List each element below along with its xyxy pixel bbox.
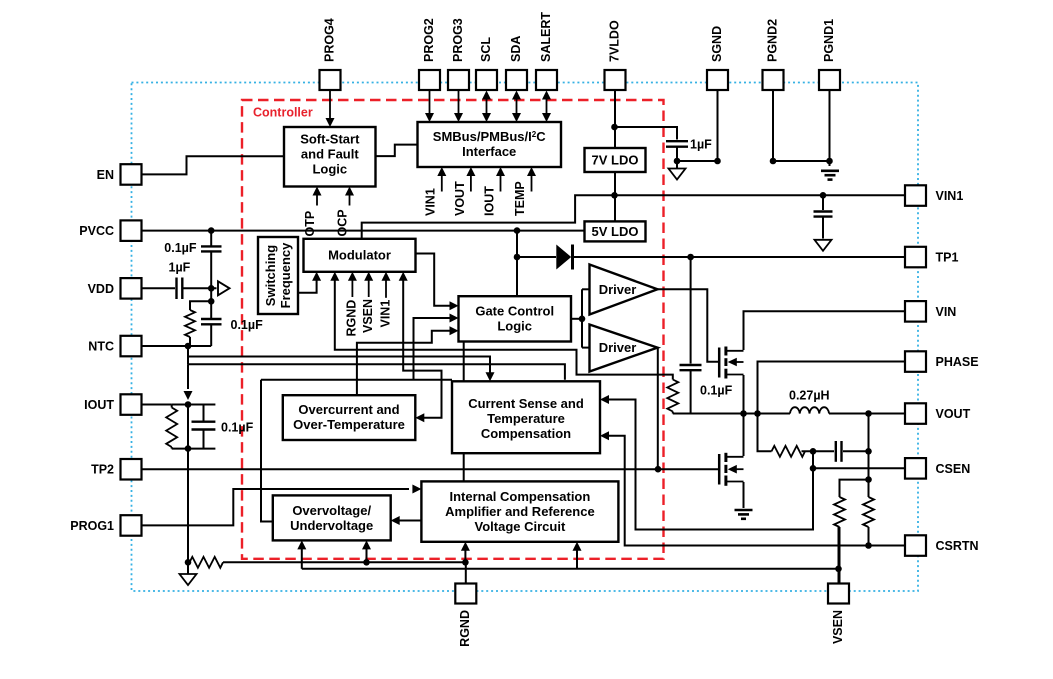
- svg-text:PROG3: PROG3: [451, 18, 465, 62]
- svg-text:Controller: Controller: [253, 106, 313, 120]
- svg-text:Temperature: Temperature: [487, 411, 565, 426]
- wire PGND1 pin drop: [829, 91, 831, 167]
- ground (SGND, open triangle): [669, 169, 686, 180]
- wire VSEN pin riser: [838, 569, 840, 584]
- wire ground stem: [187, 562, 189, 573]
- svg-text:0.1µF: 0.1µF: [231, 318, 264, 332]
- block SMBus/PMBus/I2C Interface: [418, 122, 562, 167]
- pin SCL: [476, 37, 497, 90]
- capacitor C4 1uF (7VLDO): [666, 141, 688, 147]
- block Current Sense and Temperature Compensation: [452, 381, 600, 453]
- svg-text:Interface: Interface: [462, 144, 516, 159]
- pin SDA: [506, 36, 527, 90]
- svg-text:VSEN: VSEN: [361, 299, 375, 333]
- node cap/divider column: [865, 448, 872, 455]
- pin SALERT: [536, 12, 557, 90]
- arrow SDA bidirectional: [516, 97, 518, 115]
- svg-text:IOUT: IOUT: [84, 398, 114, 412]
- svg-text:SALERT: SALERT: [539, 12, 553, 62]
- svg-text:Undervoltage: Undervoltage: [290, 518, 373, 533]
- svg-text:NTC: NTC: [88, 340, 114, 354]
- block 5V LDO: [585, 221, 646, 241]
- pin SGND: [707, 26, 728, 90]
- wire bottom analog rail1: [188, 561, 190, 563]
- svg-text:SDA: SDA: [509, 36, 523, 62]
- node divider top: [865, 476, 872, 483]
- svg-text:VIN1: VIN1: [379, 300, 393, 328]
- block Overcurrent and Over-Temperature: [283, 395, 416, 440]
- wire VIN1 rail into Modulator top: [362, 195, 615, 239]
- node rail1/OV arrow: [363, 559, 370, 566]
- wire VIN line to Q1 drain: [744, 311, 906, 350]
- svg-text:VOUT: VOUT: [453, 181, 467, 216]
- svg-text:IOUT: IOUT: [483, 186, 497, 216]
- arrow+label OTP into Soft-Start: [316, 194, 318, 206]
- pin EN: [97, 164, 142, 185]
- wire NTC: [141, 345, 211, 347]
- transistor Q1 (high-side MOSFET): [719, 347, 743, 379]
- wire Switching Frequency to Modulator: [298, 278, 317, 293]
- wire CSRTN line: [607, 436, 906, 546]
- wire SGND ground stem: [676, 161, 678, 168]
- node TP1/bootstrap: [687, 254, 694, 261]
- svg-text:7V LDO: 7V LDO: [592, 153, 639, 168]
- node IOUT network bottom: [185, 445, 192, 452]
- node RC mid: [810, 448, 817, 455]
- resistor R4 (divider left): [834, 497, 845, 527]
- arrow+label VOUT into SMBus: [470, 174, 472, 192]
- chip boundary (blue dotted): [132, 83, 919, 592]
- wire phase rail: [673, 413, 790, 415]
- svg-text:EN: EN: [97, 168, 114, 182]
- wire PHASE line: [758, 362, 906, 414]
- svg-text:CSRTN: CSRTN: [936, 539, 979, 553]
- node GCL output: [579, 316, 586, 323]
- wire Modulator line to Overcurrent right arrow: [403, 278, 441, 418]
- svg-text:VSEN: VSEN: [831, 610, 845, 644]
- pin VIN: [905, 301, 956, 322]
- wire VDD branch to NTC resistor: [190, 301, 211, 310]
- svg-text:1µF: 1µF: [690, 138, 712, 152]
- arrow GCL input 1: [450, 301, 459, 310]
- pin PROG3: [448, 18, 469, 90]
- resistor R7 (current sense): [772, 446, 806, 457]
- wire EN to Soft-Start: [141, 156, 284, 174]
- svg-text:TP2: TP2: [91, 463, 114, 477]
- node PGND2: [770, 158, 777, 165]
- wire GCL output node to driver inputs: [571, 318, 582, 320]
- svg-text:0.27µH: 0.27µH: [789, 389, 830, 403]
- node PVCC/cap: [208, 227, 215, 234]
- pin RGND: [455, 584, 476, 647]
- driver U1 (upper): [590, 265, 658, 315]
- svg-text:CSEN: CSEN: [936, 462, 971, 476]
- node rail1/RGND: [462, 559, 469, 566]
- arrow PROG2 into SMBus: [429, 91, 431, 115]
- transistor Q2 (low-side MOSFET): [719, 453, 743, 486]
- svg-text:VIN1: VIN1: [936, 189, 964, 203]
- capacitor C3 0.1uF (NTC filter): [201, 319, 222, 324]
- svg-text:and Fault: and Fault: [301, 147, 359, 162]
- wire IOUT RC network rails: [172, 404, 216, 406]
- svg-text:Amplifier and Reference: Amplifier and Reference: [445, 504, 595, 519]
- arrow PROG3 into SMBus: [458, 91, 460, 115]
- arrow+label OCP into Soft-Start: [349, 194, 351, 206]
- ground (PGND1, earth): [821, 171, 839, 180]
- wire GCL input 3 from Overcurrent top: [357, 331, 453, 396]
- node phase/PHASE pin: [754, 410, 761, 417]
- svg-text:SCL: SCL: [479, 37, 493, 62]
- arrow SALERT bidirectional: [546, 97, 548, 115]
- inductor L1 0.27uH: [790, 407, 829, 413]
- wire VIN1 rail: [615, 194, 906, 196]
- block Internal Compensation Amplifier and Reference Voltage Circuit: [421, 481, 618, 541]
- pin PROG4: [320, 18, 341, 90]
- wire PGND2 pin drop: [773, 91, 830, 162]
- block 7V LDO: [585, 148, 646, 172]
- wire bootstrap cap column: [690, 257, 692, 364]
- block Switching Frequency: [258, 237, 298, 314]
- svg-text:PVCC: PVCC: [79, 224, 114, 238]
- arrow SwFreq into Modulator: [312, 272, 321, 281]
- node PGND1: [826, 158, 833, 165]
- capacitor C2 1uF (VDD series): [177, 278, 183, 300]
- arrow+label TEMP into SMBus: [531, 174, 533, 192]
- wire Q1 source to phase rail: [743, 375, 745, 414]
- wire GCL input 2 from W1: [414, 318, 453, 380]
- wire CSEN return to Current Sense block: [607, 400, 814, 530]
- svg-text:PGND1: PGND1: [822, 19, 836, 62]
- svg-text:Driver: Driver: [599, 282, 637, 297]
- node 1uF/SGND left: [674, 158, 681, 165]
- wire TP2 rail to Q2 gate: [141, 468, 718, 470]
- svg-text:VOUT: VOUT: [936, 407, 971, 421]
- svg-text:Soft-Start: Soft-Start: [300, 132, 360, 147]
- svg-text:TP1: TP1: [936, 251, 959, 265]
- svg-text:RGND: RGND: [345, 300, 359, 337]
- arrow+label VSEN stub into Modulator: [368, 279, 370, 297]
- pin VDD: [88, 278, 142, 299]
- wire TP1 rail with diode: [517, 256, 556, 258]
- pin CSEN: [905, 458, 970, 479]
- wire Q2 source to power ground: [743, 482, 745, 508]
- arrow PROG4 into Soft-Start: [329, 91, 331, 120]
- resistor R5 (divider right): [863, 497, 874, 527]
- svg-text:SMBus/PMBus/I2C: SMBus/PMBus/I2C: [433, 129, 546, 144]
- pin PGND2: [763, 19, 784, 90]
- node CSRTN/divider: [865, 542, 872, 549]
- svg-text:7VLDO: 7VLDO: [607, 20, 621, 62]
- resistor R2 (IOUT): [166, 408, 177, 448]
- pin TP2: [91, 459, 141, 480]
- pin IOUT: [84, 394, 141, 415]
- svg-text:PHASE: PHASE: [936, 355, 979, 369]
- pin PROG2: [419, 18, 440, 90]
- block Modulator: [304, 239, 416, 272]
- svg-text:RGND: RGND: [458, 610, 472, 647]
- arrow IOUT drop: [184, 391, 193, 400]
- svg-text:TEMP: TEMP: [513, 181, 527, 216]
- pin TP1: [905, 247, 958, 267]
- wire Soft-Start to SMBus interface: [376, 145, 418, 157]
- svg-text:Frequency: Frequency: [278, 242, 293, 309]
- wire driver1 output to Q1 gate: [658, 289, 719, 362]
- svg-text:1µF: 1µF: [169, 261, 191, 275]
- wire divider bottoms: [839, 527, 841, 584]
- wire CSEN line: [813, 467, 905, 469]
- node IOUT network top: [185, 401, 192, 408]
- node VOUT: [865, 410, 872, 417]
- wire rail1 to Overvoltage arrow: [366, 546, 368, 562]
- wire GCL-internal comp column: [463, 342, 465, 482]
- pin 7VLDO: [605, 20, 626, 90]
- node 7VLDO/1uF: [611, 124, 618, 131]
- wire VDD input: [141, 287, 175, 289]
- node 7VLDO/VIN1 rail: [611, 192, 618, 199]
- arrow GCL input 3: [450, 326, 459, 335]
- ground (analog rail, open triangle): [180, 574, 197, 585]
- svg-text:0.1µF: 0.1µF: [164, 241, 197, 255]
- svg-text:Overvoltage/: Overvoltage/: [292, 503, 371, 518]
- wire rail2 to Internal Compensation arrow: [576, 546, 578, 569]
- arrow rail2 into Internal Compensation bottom: [573, 542, 582, 551]
- pin PROG1: [70, 515, 141, 536]
- svg-text:Current Sense and: Current Sense and: [468, 396, 584, 411]
- node Q2 gate: [655, 466, 662, 473]
- wire rail2 to Overvoltage arrow: [301, 546, 303, 569]
- svg-text:Logic: Logic: [497, 318, 532, 333]
- svg-text:PROG2: PROG2: [422, 18, 436, 62]
- wire PVCC decoupling column: [210, 231, 212, 246]
- node PVCC/GCL: [514, 227, 521, 234]
- arrow GCL input 2: [450, 314, 459, 323]
- ground (Q2 source, earth): [735, 510, 753, 519]
- wire VSEN feedback bus W1: [261, 379, 452, 381]
- svg-text:Over-Temperature: Over-Temperature: [293, 417, 405, 432]
- wire PVCC to Gate Control Logic top: [516, 231, 518, 297]
- wire Q2 drain to phase rail: [743, 414, 745, 457]
- svg-text:SGND: SGND: [710, 26, 724, 62]
- svg-text:Internal Compensation: Internal Compensation: [449, 489, 590, 504]
- svg-text:Logic: Logic: [312, 162, 347, 177]
- arrow rail1 into Overvoltage bottom right: [362, 540, 371, 549]
- capacitor C1 0.1uF (PVCC): [201, 246, 222, 251]
- wire IOUT network ground column: [187, 405, 189, 449]
- svg-text:OTP: OTP: [303, 211, 317, 237]
- diode D1: [556, 245, 571, 270]
- svg-text:Switching: Switching: [263, 245, 278, 306]
- svg-text:Driver: Driver: [599, 340, 637, 355]
- wire IOUT pin to RC network: [141, 404, 172, 406]
- node VIN1 cap: [820, 192, 827, 199]
- capacitor C8 (CSEN series): [836, 441, 842, 462]
- arrow CSEN return into Current Sense right: [600, 395, 609, 404]
- arrow lineA into Modulator: [330, 272, 339, 281]
- node VDD branch: [208, 298, 215, 305]
- wire Modulator phase feedback (line A): [335, 278, 673, 380]
- wire 1uF branch to SGND: [615, 127, 678, 140]
- wire IOUT arrow drop: [187, 364, 189, 389]
- wire Internal Compensation to Overvoltage: [397, 520, 422, 522]
- pin VSEN: [828, 584, 849, 645]
- svg-text:PROG4: PROG4: [322, 18, 336, 62]
- node NTC resistor: [185, 343, 192, 350]
- arrow SCL bidirectional: [486, 97, 488, 115]
- wire VIN1 decoupling cap drop: [822, 195, 824, 210]
- block Gate Control Logic: [459, 296, 572, 341]
- arrow PROG1 into Internal Compensation left: [412, 485, 421, 494]
- node VDD: [208, 285, 215, 292]
- wire NTC sense run to Current Sense block: [187, 346, 189, 364]
- block Soft-Start and Fault Logic: [284, 127, 376, 187]
- controller boundary (red dashed): [242, 100, 664, 559]
- pin PHASE: [905, 351, 979, 372]
- wire bottom rail2 (VSEN bus): [302, 568, 839, 570]
- svg-text:PGND2: PGND2: [765, 19, 779, 62]
- pin NTC: [88, 336, 141, 357]
- arrow+label RGND stub into Modulator: [351, 279, 353, 297]
- wire current sense RC branch: [758, 414, 772, 452]
- node CSEN line: [810, 465, 817, 472]
- arrow CSRTN into Current Sense right: [600, 431, 609, 440]
- arrow+label IOUT into SMBus: [500, 174, 502, 192]
- wire divider top branch: [840, 480, 869, 497]
- wire PROG1 to Internal Compensation: [141, 489, 409, 525]
- arrow RGND into Internal Compensation bottom: [461, 542, 470, 551]
- wire VOUT divider column: [868, 414, 870, 480]
- svg-text:0.1µF: 0.1µF: [221, 420, 254, 434]
- svg-text:Compensation: Compensation: [481, 426, 571, 441]
- pin PVCC: [79, 220, 141, 241]
- wire driver2 output to Q2 gate node: [657, 348, 659, 470]
- node rail1 ground: [185, 559, 192, 566]
- svg-text:VIN: VIN: [936, 305, 957, 319]
- resistor R1 (NTC): [185, 310, 195, 337]
- pin CSRTN: [905, 535, 979, 556]
- block Overvoltage/Undervoltage: [273, 495, 391, 540]
- svg-text:VDD: VDD: [88, 282, 114, 296]
- buffer amplifier (VDD): [218, 281, 230, 295]
- svg-text:PROG1: PROG1: [70, 519, 114, 533]
- svg-text:Modulator: Modulator: [328, 248, 391, 263]
- wire PVCC rail: [141, 230, 585, 232]
- capacitor C5 (VIN1 bypass): [814, 212, 833, 217]
- wire IOUT run to phase feedback column: [188, 364, 565, 380]
- svg-text:Gate Control: Gate Control: [475, 303, 554, 318]
- svg-text:OCP: OCP: [336, 209, 350, 236]
- resistor R3 (phase feedback): [667, 380, 678, 412]
- arrow Internal Compensation into Overvoltage: [391, 516, 400, 525]
- svg-text:0.1µF: 0.1µF: [700, 384, 733, 398]
- arrow into Overcurrent right: [415, 413, 424, 422]
- node phase/Q1 source: [740, 410, 747, 417]
- node TP1 jog: [514, 254, 521, 261]
- arrow NTC line into Current Sense top: [486, 372, 495, 381]
- svg-text:Voltage Circuit: Voltage Circuit: [475, 519, 566, 534]
- resistor R6 (bottom rail): [190, 557, 224, 568]
- arrow+label VIN1 stub into Modulator: [385, 279, 387, 298]
- wire RGND pin riser: [465, 562, 467, 583]
- pin VIN1: [905, 185, 963, 206]
- wire 7V LDO to VIN1 rail and 5V LDO: [614, 172, 616, 221]
- arrow mod line6 into Modulator: [399, 272, 408, 281]
- capacitor C7 0.1uF (IOUT): [192, 422, 216, 430]
- svg-text:VIN1: VIN1: [424, 188, 438, 216]
- wire 7VLDO pin to 7V LDO block: [614, 91, 616, 149]
- wire Modulator output to GCL input 1: [416, 254, 453, 306]
- driver U2 (lower): [590, 325, 658, 372]
- arrow rail2 into Overvoltage bottom left: [297, 540, 306, 549]
- arrow+label VIN1 into SMBus: [441, 174, 443, 192]
- capacitor C6 0.1uF (bootstrap): [680, 365, 702, 370]
- pin PGND1: [819, 19, 840, 90]
- svg-text:5V LDO: 5V LDO: [592, 224, 639, 239]
- ground (VIN1 cap, open triangle): [815, 240, 832, 251]
- pin VOUT: [905, 403, 971, 424]
- wire SGND pin drop: [717, 91, 719, 162]
- node SGND: [714, 158, 721, 165]
- svg-text:Overcurrent and: Overcurrent and: [298, 402, 399, 417]
- node rail2/VSEN: [835, 566, 842, 573]
